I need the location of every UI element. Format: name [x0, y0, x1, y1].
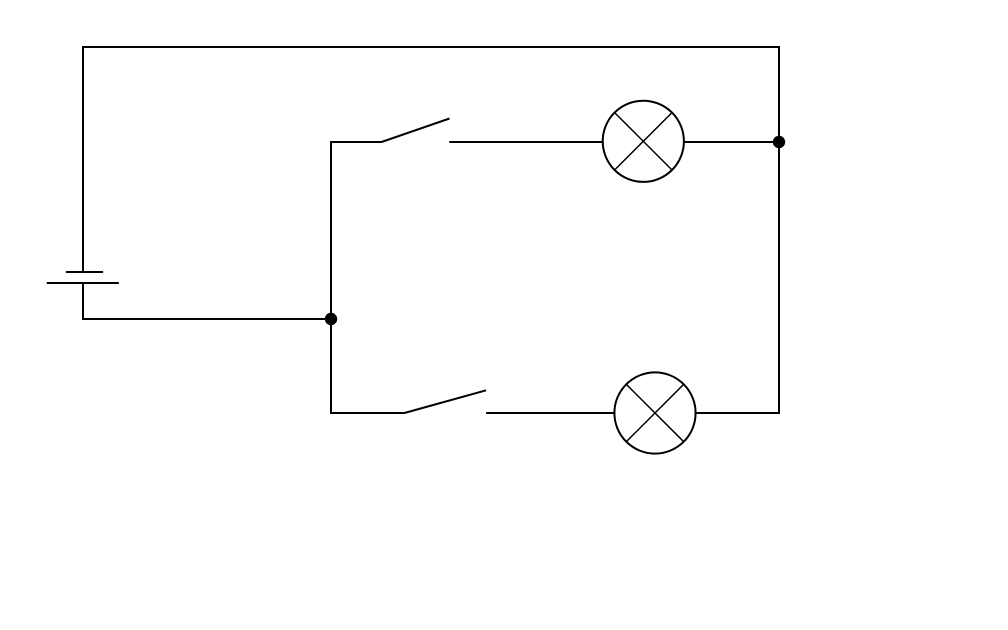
switch S2	[404, 390, 486, 413]
lamp L1	[603, 101, 684, 182]
wire right vertical	[778, 46, 780, 414]
wire top branch right	[683, 141, 779, 143]
wire bottom branch right	[695, 412, 780, 414]
node junction top right	[773, 136, 785, 148]
wire left vertical	[82, 46, 84, 272]
wire top branch middle	[449, 141, 603, 143]
node junction middle	[325, 313, 337, 325]
switch S1	[382, 119, 450, 143]
wire top branch left	[330, 141, 382, 143]
wire center vertical	[330, 141, 332, 414]
wire bottom branch middle	[486, 412, 615, 414]
battery B1	[47, 272, 119, 283]
wire battery to middle junction	[83, 283, 331, 319]
wire bottom branch left	[330, 412, 404, 414]
wire top horizontal	[82, 46, 780, 48]
lamp L2	[614, 372, 695, 453]
